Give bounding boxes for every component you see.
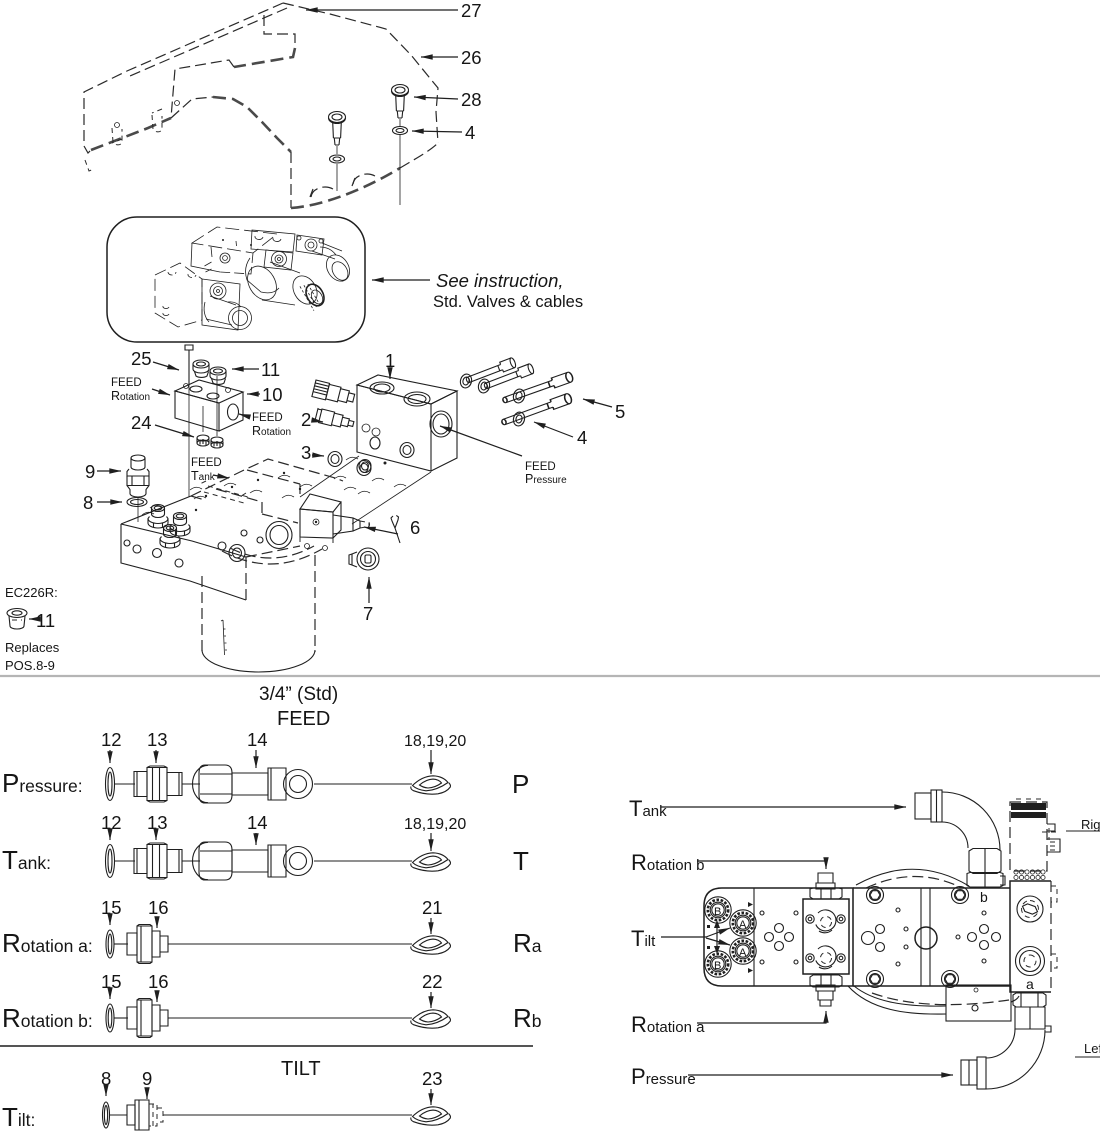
svg-text:1: 1 [385,350,395,371]
svg-text:13: 13 [147,729,168,750]
svg-text:Tank: Tank [191,469,216,483]
svg-text:FEED: FEED [252,412,283,424]
svg-text:Tilt:: Tilt: [2,1102,35,1131]
svg-text:7: 7 [363,603,373,624]
svg-text:Rotation b: Rotation b [631,850,704,875]
svg-text:Rb: Rb [513,1003,542,1033]
svg-text:5: 5 [615,401,625,422]
svg-text:22: 22 [422,971,443,992]
svg-text:Rotation a: Rotation a [631,1012,705,1037]
svg-text:16: 16 [148,897,169,918]
svg-text:Rotation b:: Rotation b: [2,1003,93,1033]
svg-text:16: 16 [148,971,169,992]
svg-text:26: 26 [461,47,482,68]
svg-text:B: B [714,960,721,972]
svg-text:See instruction,: See instruction, [436,270,564,291]
svg-text:Righ: Righ [1081,817,1100,832]
svg-text:12: 12 [101,812,122,833]
svg-text:b: b [980,889,988,905]
svg-text:A: A [739,947,747,959]
svg-text:25: 25 [131,348,152,369]
svg-text:Pressure:: Pressure: [2,768,83,798]
svg-text:P: P [512,769,529,799]
svg-text:9: 9 [85,461,95,482]
svg-text:8: 8 [83,492,93,513]
svg-text:15: 15 [101,971,122,992]
svg-text:9: 9 [142,1068,152,1089]
svg-text:EC226R:: EC226R: [5,585,58,600]
svg-text:Rotation: Rotation [111,389,150,403]
svg-text:TILT: TILT [281,1058,321,1080]
svg-text:POS.8-9: POS.8-9 [5,658,55,673]
svg-text:4: 4 [577,427,587,448]
svg-text:6: 6 [410,517,420,538]
svg-text:FEED: FEED [111,377,142,389]
svg-text:FEED: FEED [277,708,330,730]
svg-text:2: 2 [301,409,311,430]
svg-text:15: 15 [101,897,122,918]
svg-text:Replaces: Replaces [5,640,60,655]
svg-text:23: 23 [422,1068,443,1089]
svg-text:3: 3 [301,442,311,463]
svg-text:13: 13 [147,812,168,833]
svg-text:Tank:: Tank: [2,845,51,875]
svg-text:14: 14 [247,812,268,833]
svg-text:Rotation: Rotation [252,424,291,438]
svg-text:11: 11 [261,359,280,380]
svg-text:10: 10 [262,384,283,405]
svg-text:14: 14 [247,729,268,750]
svg-text:12: 12 [101,729,122,750]
svg-text:Pressure: Pressure [631,1064,696,1089]
svg-text:3/4” (Std): 3/4” (Std) [259,684,338,705]
svg-text:Lef: Lef [1084,1041,1100,1056]
svg-text:Std. Valves & cables: Std. Valves & cables [433,293,583,311]
svg-text:Ra: Ra [513,928,542,958]
svg-text:B: B [714,906,721,918]
svg-text:Pressure: Pressure [525,472,567,486]
svg-text:Rotation a:: Rotation a: [2,928,93,958]
svg-text:18,19,20: 18,19,20 [404,816,466,833]
svg-text:18,19,20: 18,19,20 [404,733,466,750]
svg-text:T: T [513,846,529,876]
svg-text:Tilt: Tilt [631,926,656,951]
svg-text:A: A [739,919,747,931]
svg-text:8: 8 [101,1068,111,1089]
svg-text:24: 24 [131,412,152,433]
svg-text:11: 11 [36,610,55,631]
svg-text:FEED: FEED [191,457,222,469]
svg-text:a: a [1026,976,1034,992]
svg-text:4: 4 [465,122,475,143]
svg-text:Tank: Tank [629,796,667,821]
svg-text:27: 27 [461,0,482,21]
svg-text:28: 28 [461,89,482,110]
svg-text:21: 21 [422,897,443,918]
